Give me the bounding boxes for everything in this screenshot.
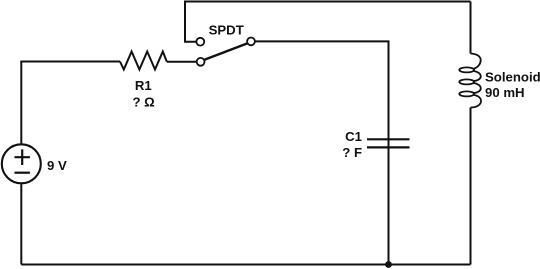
solenoid L1 coil entry arc [471, 54, 481, 69]
solenoid L1 upper lead [470, 2, 472, 54]
wire left branch: top-left corner to resistor [21, 62, 120, 144]
svg-text:C1: C1 [345, 129, 362, 144]
solenoid L1 connector arc 2-3 [474, 83, 481, 93]
wire resistor to switch pole [167, 61, 197, 63]
svg-text:9 V: 9 V [47, 158, 67, 173]
junction dot capacitor/bottom bus [385, 261, 392, 268]
svg-text:Solenoid: Solenoid [485, 70, 540, 85]
solenoid L1 loop 3 [459, 91, 474, 96]
capacitor C1 bottom plate [367, 146, 410, 148]
solenoid L1 lower lead [470, 108, 472, 265]
voltage source plus sign [15, 149, 30, 165]
svg-text:R1: R1 [135, 78, 152, 93]
switch SPDT lever [204, 43, 248, 60]
voltage source minus sign [15, 172, 30, 174]
wire top bus from switch throw-1 up and across to solenoid top [185, 2, 471, 42]
svg-text:SPDT: SPDT [209, 22, 244, 37]
voltage source V1 9V circle [2, 144, 41, 183]
switch SPDT throw-2 terminal [197, 58, 205, 66]
wire bottom bus [21, 264, 470, 266]
capacitor C1 top plate [367, 138, 410, 140]
solenoid L1 connector arc 1-2 [474, 71, 481, 81]
wire battery bottom to bottom bus [20, 184, 22, 264]
solenoid L1 loop 1 [459, 67, 474, 72]
svg-text:90 mH: 90 mH [485, 85, 525, 100]
wire switch common to capacitor branch, down to bottom bus [255, 41, 389, 264]
solenoid L1 coil exit arc [471, 95, 482, 108]
svg-text:? Ω: ? Ω [132, 95, 155, 110]
resistor R1 zigzag [120, 52, 167, 70]
svg-text:? F: ? F [342, 145, 362, 160]
switch SPDT common terminal [247, 38, 255, 46]
solenoid L1 loop 2 [459, 79, 474, 84]
switch SPDT throw-1 terminal [196, 38, 204, 46]
